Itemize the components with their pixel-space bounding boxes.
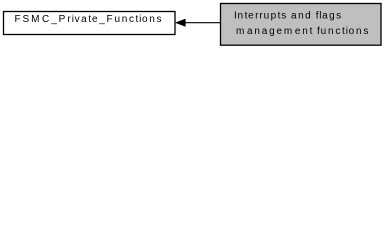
arrowhead: [176, 19, 186, 26]
svg-text:Interrupts and flags: Interrupts and flags: [234, 10, 341, 21]
edge: arrow from gray node to FSMC_Private_Functions: [176, 19, 220, 26]
wire: [185, 22, 221, 24]
node Interrupts and flags management functions: [221, 4, 382, 46]
svg-text:FSMC_Private_Functions: FSMC_Private_Functions: [15, 14, 162, 25]
svg-text:management functions: management functions: [236, 26, 368, 37]
node FSMC_Private_Functions: [4, 12, 176, 35]
